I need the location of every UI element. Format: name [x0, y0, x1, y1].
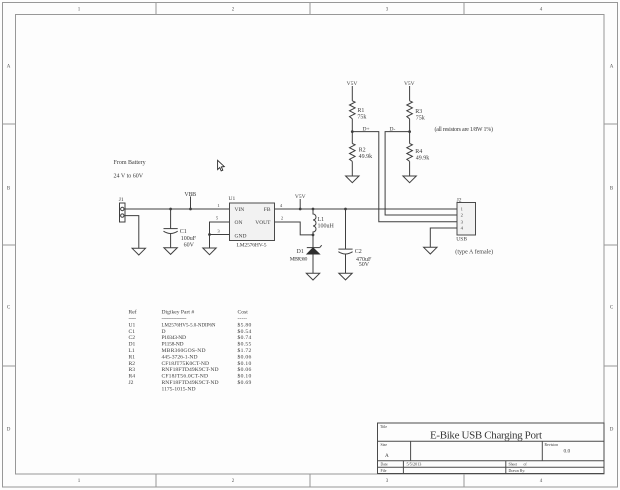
pin number 1 (VIN)	[217, 203, 220, 208]
resistor R1 75k	[350, 101, 367, 121]
wire D+ to J2 pin3	[352, 132, 457, 222]
svg-text:$0.69: $0.69	[238, 379, 252, 386]
node D-	[390, 126, 412, 133]
svg-text:D1: D1	[297, 249, 304, 255]
svg-text:100uF: 100uF	[181, 236, 197, 242]
svg-text:Date: Date	[381, 463, 388, 467]
svg-text:ON: ON	[235, 220, 243, 226]
svg-text:Size: Size	[381, 443, 388, 447]
svg-text:P1158-ND: P1158-ND	[162, 342, 184, 348]
ground under R4	[403, 176, 416, 183]
ground under R2	[346, 176, 359, 183]
junction C1/rail	[169, 208, 172, 211]
connector J1	[119, 197, 125, 222]
annotation: all resistors are 1/8W 1%	[435, 126, 494, 133]
svg-text:R4: R4	[129, 374, 136, 380]
svg-text:L1: L1	[129, 348, 135, 354]
svg-text:C2: C2	[129, 335, 136, 341]
svg-text:D: D	[7, 428, 11, 433]
svg-text:A: A	[7, 65, 11, 70]
svg-text:D: D	[162, 329, 166, 335]
pin number 4 (FB)	[280, 203, 283, 208]
svg-text:445-3726-1-ND: 445-3726-1-ND	[162, 354, 198, 360]
svg-text:50V: 50V	[359, 262, 370, 268]
svg-text:R4: R4	[415, 149, 422, 155]
svg-text:C1: C1	[180, 229, 187, 235]
svg-text:RNF18FTD49K9CT-ND: RNF18FTD49K9CT-ND	[162, 380, 219, 386]
connector J2 USB	[455, 197, 493, 255]
svg-text:R3: R3	[129, 367, 136, 373]
svg-text:LM2576HV5-5.0-NDIP6N: LM2576HV5-5.0-NDIP6N	[162, 322, 216, 328]
svg-text:J2: J2	[129, 380, 134, 386]
svg-text:24 V to 60V: 24 V to 60V	[114, 174, 144, 180]
node V5V above R1	[347, 81, 358, 101]
BOM table	[129, 309, 252, 393]
svg-text:$0.55: $0.55	[238, 341, 252, 348]
svg-text:75k: 75k	[357, 114, 366, 120]
svg-text:R2: R2	[359, 147, 366, 153]
svg-text:$5.80: $5.80	[238, 321, 252, 328]
svg-text:CF18JT75K0CT-ND: CF18JT75K0CT-ND	[162, 361, 210, 367]
wire R3 to junction	[409, 119, 411, 132]
svg-text:60V: 60V	[184, 242, 195, 248]
wire J1 pin2 to ground	[125, 216, 139, 249]
ground under C2	[339, 273, 352, 280]
svg-text:CF18JT56.0CT-ND: CF18JT56.0CT-ND	[162, 374, 209, 380]
resistor R2 49.9k	[350, 132, 373, 176]
svg-text:VOUT: VOUT	[255, 220, 271, 226]
svg-text:Digikey Part #: Digikey Part #	[162, 310, 195, 316]
svg-text:R2: R2	[129, 361, 136, 367]
diode D1 MBR360	[290, 235, 322, 273]
wire U1 VOUT to diode node	[275, 222, 314, 235]
svg-text:LM2576HV-5: LM2576HV-5	[237, 242, 267, 248]
inductor L1	[312, 208, 335, 235]
svg-text:$0.54: $0.54	[238, 328, 252, 335]
svg-text:-----: -----	[238, 316, 248, 322]
wire R1 to junction	[351, 119, 353, 132]
svg-text:Sheet: Sheet	[509, 463, 518, 467]
svg-text:5/5/2013: 5/5/2013	[407, 462, 422, 467]
op-amp U1 LM2576HV-5 regulator	[229, 196, 275, 249]
svg-text:A: A	[385, 453, 389, 459]
svg-text:0.0: 0.0	[564, 449, 571, 455]
ground under J1	[132, 248, 145, 255]
node VBB	[184, 192, 196, 210]
ground under U1	[203, 248, 216, 255]
svg-text:A: A	[610, 65, 614, 70]
svg-text:$0.06: $0.06	[238, 353, 252, 360]
resistor R4 49.9k	[407, 132, 430, 176]
pin number 2 (VOUT)	[281, 215, 284, 220]
pin number 5 (ON)	[216, 215, 219, 220]
svg-text:-----------------: -----------------	[162, 316, 187, 322]
svg-text:$1.72: $1.72	[238, 347, 252, 354]
wire U1 FB to J2 pin1 (V5V rail)	[275, 208, 458, 210]
svg-text:V5V: V5V	[295, 194, 306, 200]
svg-text:R1: R1	[357, 108, 364, 114]
ground under D1	[306, 273, 319, 280]
annotation: From Battery 24 V to 60V	[114, 160, 146, 180]
svg-text:(type A female): (type A female)	[455, 248, 493, 255]
svg-text:MBR360GOS-ND: MBR360GOS-ND	[162, 348, 206, 354]
wire U1 GND pin	[210, 234, 230, 236]
svg-text:R1: R1	[129, 354, 136, 360]
svg-text:1175-1015-ND: 1175-1015-ND	[162, 386, 196, 392]
svg-text:J1: J1	[119, 197, 124, 203]
svg-text:100uH: 100uH	[318, 224, 335, 230]
svg-text:$0.10: $0.10	[238, 360, 252, 367]
svg-text:Revision: Revision	[545, 443, 559, 447]
wire D- to J2 pin2	[385, 132, 457, 215]
svg-text:-----: -----	[129, 316, 137, 322]
svg-text:D1: D1	[129, 342, 136, 348]
junction C2/rail	[344, 208, 347, 211]
svg-text:Drawn By:: Drawn By:	[509, 469, 526, 473]
svg-text:75k: 75k	[416, 116, 425, 122]
svg-text:49.9k: 49.9k	[359, 154, 373, 160]
capacitor C1	[164, 209, 197, 248]
node D+	[351, 126, 370, 133]
svg-text:L1: L1	[318, 217, 325, 223]
svg-text:U1: U1	[229, 196, 236, 202]
node V5V at U1	[295, 194, 306, 211]
node V5V above R3	[404, 81, 415, 101]
svg-text:Cost: Cost	[238, 310, 249, 316]
mouse cursor	[218, 160, 225, 171]
svg-text:From Battery: From Battery	[114, 160, 146, 166]
junction ON/GND	[208, 233, 211, 236]
svg-text:C1: C1	[129, 329, 136, 335]
svg-text:$0.10: $0.10	[238, 373, 252, 380]
svg-text:$0.06: $0.06	[238, 366, 252, 373]
svg-text:(all resistors are 1/8W 1%): (all resistors are 1/8W 1%)	[435, 126, 494, 133]
svg-text:Ref: Ref	[129, 309, 137, 316]
svg-text:FB: FB	[264, 207, 271, 213]
svg-text:USB: USB	[456, 236, 467, 242]
svg-text:MBR360: MBR360	[290, 256, 308, 262]
junction VOUT/L1/D1	[312, 234, 315, 237]
pin number 3 (GND)	[217, 229, 220, 234]
svg-text:U1: U1	[129, 322, 136, 328]
svg-text:D: D	[610, 428, 614, 433]
ground under C1	[164, 248, 177, 255]
title block	[378, 423, 605, 474]
wire J2 pin4 to ground	[430, 228, 457, 247]
capacitor C2	[338, 209, 372, 273]
svg-text:Title: Title	[380, 425, 387, 429]
svg-text:File: File	[381, 469, 387, 473]
svg-text:RNF18FTD49K9CT-ND: RNF18FTD49K9CT-ND	[162, 367, 219, 373]
ground under J2	[424, 247, 437, 254]
svg-text:P10343-ND: P10343-ND	[162, 335, 187, 341]
wire J1 pin1 to U1 VIN (VBB rail)	[125, 208, 230, 210]
svg-text:49.9k: 49.9k	[416, 156, 430, 162]
svg-text:C2: C2	[355, 249, 362, 255]
svg-text:$0.74: $0.74	[238, 334, 252, 341]
resistor R3 75k	[407, 101, 425, 122]
svg-text:E-Bike USB Charging Port: E-Bike USB Charging Port	[430, 429, 542, 441]
wire U1 ON pin	[210, 222, 230, 248]
svg-text:GND: GND	[235, 233, 247, 239]
svg-text:R3: R3	[415, 109, 422, 115]
svg-text:VIN: VIN	[235, 207, 245, 213]
